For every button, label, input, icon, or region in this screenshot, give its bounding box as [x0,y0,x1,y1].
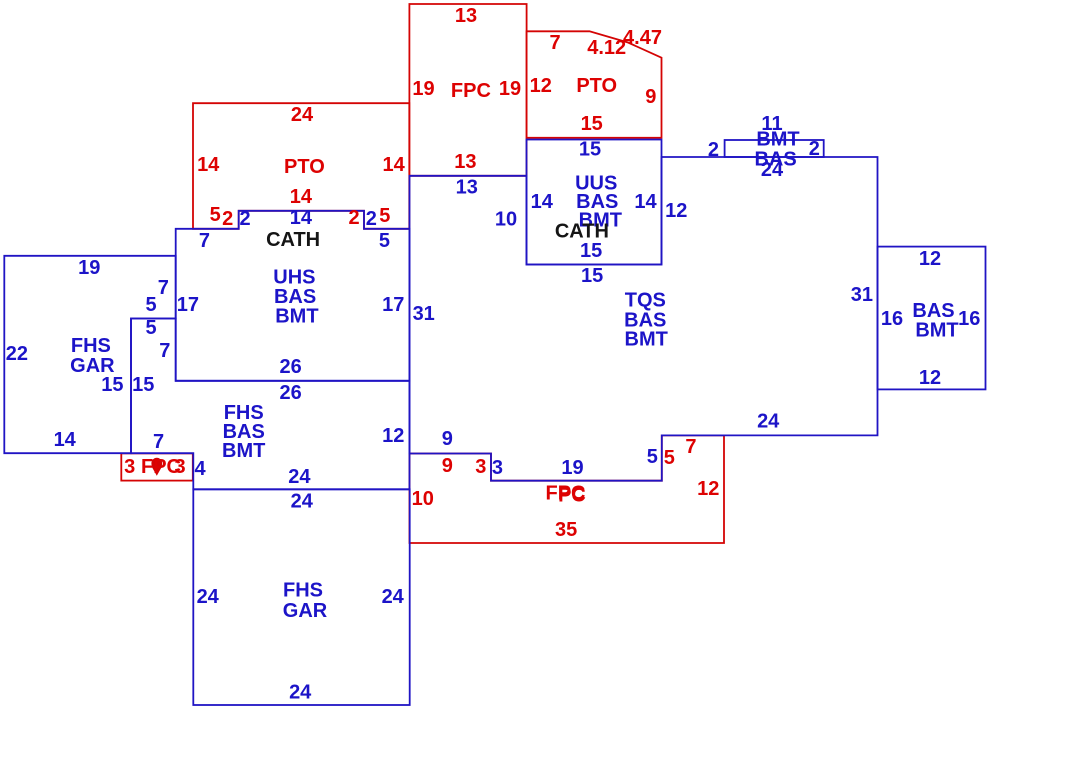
svg-text:2: 2 [348,207,359,229]
red labels [124,5,719,541]
svg-text:GAR: GAR [283,600,328,622]
svg-text:9: 9 [442,428,453,450]
svg-text:TQS: TQS [625,290,666,312]
svg-text:BMT: BMT [222,440,265,462]
svg-text:14: 14 [531,191,554,213]
svg-text:12: 12 [665,200,687,222]
TQS polygon [410,157,878,481]
svg-text:3: 3 [175,456,186,478]
svg-text:24: 24 [197,586,220,608]
FHS GAR left polygon [4,256,175,453]
svg-text:12: 12 [382,425,404,447]
svg-text:15: 15 [579,139,601,161]
svg-text:24: 24 [761,159,784,181]
svg-text:BMT: BMT [756,128,799,150]
svg-text:14: 14 [290,207,313,229]
svg-text:12: 12 [697,478,719,500]
svg-text:5: 5 [379,205,390,227]
svg-text:BMT: BMT [625,329,668,351]
FHS GAR bottom rect [193,489,409,705]
svg-text:7: 7 [199,230,210,252]
svg-text:31: 31 [851,284,873,306]
FPC top rect [409,4,526,176]
svg-text:FHS: FHS [71,335,111,357]
svg-text:2: 2 [366,208,377,230]
svg-text:4.47: 4.47 [623,27,662,49]
FPC bottom polygon [410,435,725,543]
svg-text:15: 15 [580,240,602,262]
svg-text:12: 12 [919,367,941,389]
svg-text:FPC: FPC [451,80,491,102]
svg-text:13: 13 [455,5,477,27]
svg-text:19: 19 [412,78,434,100]
svg-text:5: 5 [210,204,221,226]
svg-text:3: 3 [124,456,135,478]
svg-text:5: 5 [145,294,156,316]
svg-text:14: 14 [634,191,657,213]
svg-text:13: 13 [456,177,478,199]
svg-text:24: 24 [289,682,312,704]
svg-text:35: 35 [555,519,577,541]
FHS BAS BMT polygon [131,319,410,490]
svg-text:16: 16 [958,308,980,330]
svg-text:3: 3 [475,456,486,478]
svg-text:14: 14 [290,186,313,208]
svg-text:10: 10 [495,209,517,231]
svg-text:14: 14 [54,429,77,451]
svg-text:5: 5 [379,230,390,252]
svg-text:CATH: CATH [266,229,320,251]
svg-text:7: 7 [549,32,560,54]
svg-text:19: 19 [561,457,583,479]
svg-text:2: 2 [708,139,719,161]
UUS rect [527,140,662,265]
blue labels [6,113,981,704]
red shapes [121,4,724,543]
svg-text:7: 7 [685,436,696,458]
svg-text:5: 5 [145,317,156,339]
svg-text:24: 24 [291,104,314,126]
svg-text:26: 26 [279,382,301,404]
svg-text:PTO: PTO [576,75,617,97]
blue shapes [4,140,985,706]
svg-text:14: 14 [382,154,405,176]
svg-text:19: 19 [499,78,521,100]
svg-text:13: 13 [454,151,476,173]
svg-text:14: 14 [197,154,220,176]
svg-text:PC: PC [558,485,586,507]
svg-text:5: 5 [647,446,658,468]
svg-text:4.12: 4.12 [587,37,626,59]
svg-text:7: 7 [153,431,164,453]
svg-text:12: 12 [919,248,941,270]
svg-text:PTO: PTO [284,156,325,178]
BAS BMT right rect [878,247,986,390]
svg-text:15: 15 [132,374,154,396]
svg-text:2: 2 [222,208,233,230]
svg-text:15: 15 [581,113,603,135]
svg-text:17: 17 [382,294,404,316]
PTO left polygon [193,103,409,229]
svg-text:2: 2 [240,208,251,230]
svg-text:24: 24 [757,411,780,433]
BMT/BAS small rect [725,140,824,157]
svg-text:16: 16 [881,308,903,330]
svg-text:7: 7 [158,277,169,299]
svg-text:24: 24 [288,466,311,488]
svg-text:CATH: CATH [555,221,609,243]
svg-text:5: 5 [664,447,675,469]
svg-text:12: 12 [530,75,552,97]
PTO top-right polygon [527,31,662,138]
svg-text:22: 22 [6,343,28,365]
svg-text:15: 15 [581,265,603,287]
svg-text:BMT: BMT [915,320,958,342]
UHS polygon [176,211,410,381]
svg-text:15: 15 [101,374,123,396]
svg-text:17: 17 [177,294,199,316]
svg-text:BMT: BMT [275,306,318,328]
svg-text:19: 19 [78,257,100,279]
svg-text:9: 9 [442,455,453,477]
svg-text:24: 24 [382,586,405,608]
svg-text:24: 24 [291,491,314,513]
svg-text:FHS: FHS [283,580,323,602]
svg-text:4: 4 [195,458,207,480]
svg-text:7: 7 [159,340,170,362]
svg-text:2: 2 [809,138,820,160]
black labels [266,221,609,252]
fireplace blob [151,458,162,476]
FPC small rect [121,453,193,480]
svg-text:10: 10 [412,488,434,510]
svg-text:26: 26 [279,356,301,378]
svg-text:3: 3 [492,457,503,479]
svg-text:9: 9 [645,86,656,108]
svg-text:31: 31 [413,303,435,325]
